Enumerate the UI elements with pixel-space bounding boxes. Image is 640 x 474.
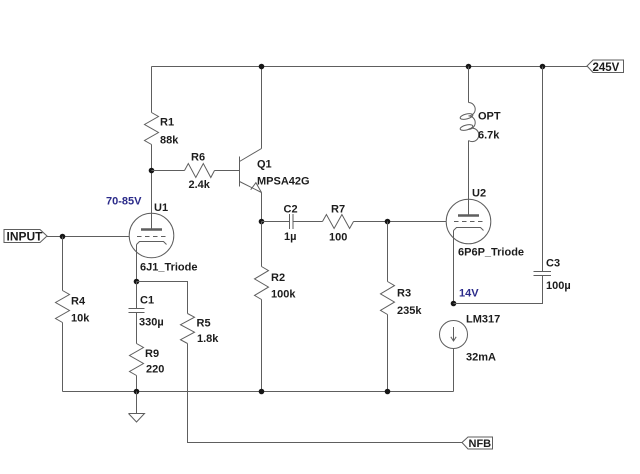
svg-text:32mA: 32mA (466, 352, 496, 364)
wire C1 to R9 (136, 313, 138, 344)
resistor R9 (130, 344, 144, 376)
node R3 top junction (385, 219, 391, 225)
wire R7 to U2 grid (354, 221, 447, 223)
resistor R4 (56, 291, 70, 323)
svg-text:1.8k: 1.8k (197, 333, 219, 345)
svg-text:14V: 14V (459, 288, 479, 300)
svg-text:220: 220 (146, 364, 164, 376)
wire R9 bottom lead (136, 376, 138, 392)
svg-text:INPUT: INPUT (7, 230, 44, 244)
svg-text:330µ: 330µ (139, 317, 164, 329)
ground (129, 392, 145, 423)
svg-text:NFB: NFB (469, 438, 492, 450)
resistor R5 (181, 314, 195, 344)
svg-text:R2: R2 (271, 272, 285, 284)
capacitor C3 (534, 272, 552, 276)
svg-text:R3: R3 (397, 288, 411, 300)
svg-text:C3: C3 (546, 258, 560, 270)
terminal 245V (587, 60, 624, 73)
wire Q1 collector to rail (261, 67, 263, 149)
terminal NFB (462, 437, 493, 449)
wire emitter to C2 (262, 221, 290, 223)
node input junction (60, 234, 66, 240)
svg-text:245V: 245V (593, 62, 620, 74)
svg-text:U1: U1 (154, 202, 168, 214)
inductor OPT (460, 103, 479, 142)
resistor R6 (185, 164, 215, 178)
svg-text:R9: R9 (145, 348, 159, 360)
svg-text:C1: C1 (140, 295, 154, 307)
current source LM317 (440, 321, 468, 349)
wire C3 top lead (542, 67, 544, 272)
wire R6 to Q1 base (215, 170, 240, 172)
svg-text:10k: 10k (71, 313, 90, 325)
node emitter junction (259, 219, 265, 225)
node U1 cathode junction (134, 279, 140, 285)
svg-text:6J1_Triode: 6J1_Triode (140, 262, 197, 274)
wire R1 top lead (151, 67, 153, 113)
node 70-85V junction (149, 168, 155, 174)
svg-text:2.4k: 2.4k (189, 179, 211, 191)
svg-text:R6: R6 (191, 152, 205, 164)
wire top supply rail (152, 66, 588, 68)
svg-text:1µ: 1µ (284, 231, 296, 243)
wire U2 cathode lead (453, 231, 455, 304)
svg-text:MPSA42G: MPSA42G (257, 176, 310, 188)
svg-text:100µ: 100µ (546, 280, 571, 292)
wire ground bus (63, 391, 454, 393)
resistor R1 (145, 113, 159, 145)
svg-text:100k: 100k (271, 289, 296, 301)
wire C1 top lead (136, 282, 138, 309)
resistor R3 (381, 282, 395, 315)
wire R3 top lead (387, 222, 389, 282)
wire OPT top lead (468, 67, 470, 103)
resistor R2 (255, 267, 269, 300)
wire R6 left lead (152, 170, 185, 172)
vacuum tube U1 (129, 213, 174, 258)
wire C2 to R7 (293, 221, 323, 223)
wire R3 bottom lead (387, 315, 389, 392)
svg-text:R5: R5 (197, 318, 211, 330)
svg-text:R1: R1 (160, 117, 174, 129)
svg-text:70-85V: 70-85V (106, 196, 142, 208)
wire C3 bottom to 14V node (454, 276, 543, 304)
svg-text:OPT: OPT (478, 111, 501, 123)
wire Q1 emitter down (261, 193, 263, 222)
node rail-collector junction (259, 64, 265, 70)
transistor Q1 (240, 149, 262, 193)
wire U1 cathode lead (136, 245, 138, 282)
svg-text:6P6P_Triode: 6P6P_Triode (458, 247, 524, 259)
svg-text:C2: C2 (284, 204, 298, 216)
wire R2 top lead (261, 222, 263, 267)
wire R5 bottom to NFB (188, 344, 463, 443)
capacitor C2 (290, 214, 294, 229)
svg-text:R4: R4 (71, 296, 86, 308)
svg-text:U2: U2 (472, 188, 486, 200)
node 14V junction (451, 301, 457, 307)
node rail-OPT junction (466, 64, 472, 70)
svg-text:R7: R7 (331, 204, 345, 216)
svg-text:100: 100 (329, 232, 347, 244)
capacitor C1 (129, 309, 145, 313)
node rail-C3 junction (540, 64, 546, 70)
wire R1 bottom to U1 anode (151, 145, 153, 230)
svg-text:88k: 88k (160, 135, 179, 147)
svg-text:LM317: LM317 (466, 314, 500, 326)
wire INPUT to U1 grid (47, 236, 130, 238)
node bus-R2 junction (259, 389, 265, 395)
wire LM317 to ground bus (453, 349, 455, 392)
svg-text:Q1: Q1 (257, 159, 272, 171)
wire R4 bottom lead (62, 323, 64, 392)
svg-text:6.7k: 6.7k (478, 130, 500, 142)
terminal INPUT (4, 230, 47, 243)
vacuum tube U2 (446, 199, 491, 244)
wire cathode to R5 branch (137, 282, 188, 314)
node bus-ground junction (134, 389, 140, 395)
node bus-R3 junction (385, 389, 391, 395)
wire R2 bottom lead (261, 300, 263, 392)
svg-text:235k: 235k (397, 305, 422, 317)
resistor R7 (323, 215, 354, 229)
wire R4 top lead (62, 237, 64, 291)
wire OPT to U2 anode (468, 141, 470, 216)
